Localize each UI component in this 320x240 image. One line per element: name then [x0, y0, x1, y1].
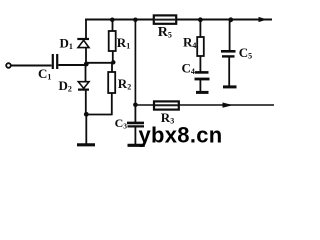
- svg-text:R5: R5: [158, 25, 172, 40]
- wire rail to R1: [112, 20, 114, 32]
- svg-text:C4: C4: [182, 61, 195, 77]
- resistor R1: [109, 31, 116, 51]
- junction dot C5 top: [228, 17, 233, 22]
- svg-text:C1: C1: [38, 66, 51, 82]
- top rail: [85, 19, 272, 21]
- arrow on top rail: [259, 17, 268, 22]
- node B junction dot: [84, 112, 89, 117]
- svg-text:ybx8.cn: ybx8.cn: [139, 123, 223, 148]
- bottom rail: [135, 104, 274, 106]
- ground bar C5: [223, 85, 237, 88]
- junction dot C3 top rail: [133, 18, 138, 23]
- wire node down to C3: [134, 105, 136, 122]
- resistor R3: [154, 101, 179, 109]
- wire node B down to ground: [85, 115, 87, 145]
- svg-text:C3: C3: [115, 116, 128, 131]
- wire node A to D2: [85, 64, 87, 82]
- wire R2 bottom to node B wire: [111, 93, 113, 115]
- node A junction dot: [84, 62, 89, 67]
- svg-text:R1: R1: [117, 35, 130, 51]
- wire R4 to C4: [199, 56, 201, 72]
- wire D2 to node B: [85, 90, 87, 115]
- resistor R5: [154, 15, 176, 23]
- wire rail to C5: [229, 20, 231, 51]
- junction dot bottom rail: [133, 103, 138, 108]
- wire C4 to ground: [199, 79, 201, 92]
- wire C1 to node A: [58, 64, 87, 66]
- svg-text:D1: D1: [60, 36, 73, 52]
- svg-text:R2: R2: [118, 76, 131, 92]
- diode D1: [77, 39, 89, 48]
- svg-text:R4: R4: [183, 35, 196, 51]
- svg-text:D2: D2: [59, 78, 72, 94]
- arrow on bottom rail: [223, 103, 234, 108]
- resistor R2: [108, 72, 115, 93]
- capacitor C5: [221, 51, 236, 56]
- wire C3 to ground: [134, 126, 136, 144]
- capacitor C4: [195, 72, 210, 79]
- wire top-left corner down to D1: [85, 20, 87, 39]
- wire rail down to bottom rail node: [134, 20, 136, 105]
- wire input to C1: [11, 65, 52, 67]
- junction dot at R1-R2: [111, 60, 115, 64]
- capacitor C3: [127, 123, 144, 127]
- wire node B to R2 bottom: [86, 114, 112, 116]
- resistor R4: [197, 37, 204, 56]
- wire junction to R2: [111, 63, 113, 72]
- wire rail to R4: [199, 20, 201, 38]
- wire D1 to node A: [85, 48, 87, 64]
- ground bar C4: [196, 91, 209, 94]
- svg-text:C5: C5: [239, 45, 252, 61]
- diode D2: [78, 82, 89, 90]
- junction dot R4 top: [198, 17, 203, 22]
- ground bar left: [77, 143, 95, 146]
- wire R1 to junction: [112, 51, 114, 63]
- wire node A to R1-R2 junction: [86, 62, 113, 64]
- junction dot R1 top: [110, 18, 115, 23]
- capacitor C1: [53, 54, 57, 69]
- ground bar C3: [128, 144, 145, 147]
- wire C5 to ground: [228, 56, 230, 86]
- input terminal: [6, 63, 11, 68]
